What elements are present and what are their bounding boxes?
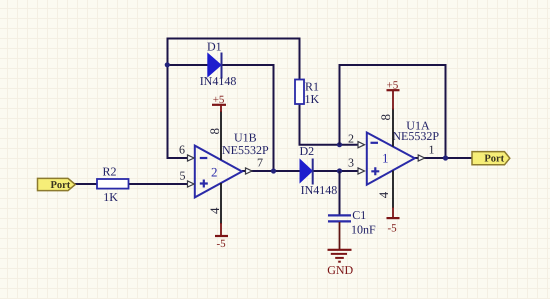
svg-text:1K: 1K <box>103 190 118 204</box>
svg-text:IN4148: IN4148 <box>301 183 338 197</box>
pin 1 arrow U1A output <box>418 155 425 161</box>
svg-text:D2: D2 <box>300 144 315 158</box>
label C1 value 10nF <box>351 222 376 236</box>
pin 5 arrow U1B non-inverting input <box>188 181 195 187</box>
wire left port to R2 <box>73 183 97 185</box>
pin number 3 <box>348 156 354 170</box>
svg-text:C1: C1 <box>352 208 366 222</box>
label U1A designator <box>406 119 430 133</box>
diode D2 <box>300 159 313 185</box>
svg-text:D1: D1 <box>207 40 222 54</box>
pin 3 arrow U1A non-inverting input <box>358 168 365 174</box>
pin number 4 U1A (rotated) <box>376 191 391 198</box>
port P1 (left, Port) <box>38 178 76 190</box>
port P2 (right, Port) <box>472 152 510 165</box>
label R1 designator <box>305 80 319 94</box>
wire junction down to C1 <box>339 171 341 215</box>
svg-text:10nF: 10nF <box>351 222 376 236</box>
label R2 designator <box>103 165 117 179</box>
node junction at U1A pin 2 net <box>337 142 342 147</box>
svg-text:-5: -5 <box>217 238 227 250</box>
op-amp U1A <box>367 133 415 185</box>
svg-text:1: 1 <box>429 143 435 157</box>
svg-text:IN4148: IN4148 <box>200 74 237 88</box>
svg-text:4: 4 <box>207 207 222 214</box>
wire U1A feedback loop left vertical <box>339 64 341 145</box>
power -5 below U1B <box>215 223 228 250</box>
power +5 above U1B <box>212 94 226 112</box>
pin 8 U1A power pin <box>392 109 394 147</box>
svg-text:+5: +5 <box>387 79 399 91</box>
diode D1 <box>208 53 222 79</box>
pin 4 U1B power pin <box>220 183 222 224</box>
svg-text:4: 4 <box>376 191 391 198</box>
svg-text:6: 6 <box>179 143 185 157</box>
pin number 5 <box>180 169 186 183</box>
pin 2 arrow U1A inverting input <box>358 142 365 148</box>
svg-text:1K: 1K <box>305 92 320 106</box>
wire U1B output row to D2 anode <box>242 170 300 172</box>
label C1 designator <box>352 208 366 222</box>
label R1 value 1K <box>305 92 320 106</box>
svg-text:2: 2 <box>348 132 354 146</box>
svg-text:-5: -5 <box>388 223 398 235</box>
node junction at U1A output <box>443 155 448 160</box>
svg-text:+5: +5 <box>213 94 225 106</box>
pin number 4 U1B (rotated) <box>207 207 222 214</box>
pin 6 arrow U1B inverting input <box>188 155 195 161</box>
node junction at D1 anode / pin6 net <box>165 62 170 67</box>
pin number 8 U1B (rotated) <box>207 128 222 135</box>
wire top feedback horizontal (D1 loop top) <box>167 38 300 40</box>
ground GND power symbol <box>328 222 352 262</box>
pin 7 arrow U1B output <box>246 168 253 174</box>
wire D1 anode segment <box>167 64 209 66</box>
label D1 designator <box>207 40 222 54</box>
label R2 value 1K <box>103 190 118 204</box>
wire D2 cathode to U1A pin 3 <box>313 170 359 172</box>
svg-text:8: 8 <box>207 128 222 135</box>
label U1B designator <box>234 131 257 145</box>
wire D1 cathode segment <box>222 64 275 66</box>
svg-text:Port: Port <box>50 180 70 191</box>
svg-text:3: 3 <box>348 156 354 170</box>
svg-text:Port: Port <box>484 154 504 165</box>
wire R1 top leg from feedback <box>299 38 301 80</box>
svg-text:NE5532P: NE5532P <box>392 129 439 143</box>
node junction at U1B output <box>271 168 276 173</box>
wire U1A feedback loop top horizontal <box>339 64 446 66</box>
svg-text:7: 7 <box>257 156 263 170</box>
svg-text:R2: R2 <box>103 165 117 179</box>
op-amp U1B <box>195 146 242 198</box>
svg-text:2: 2 <box>211 165 218 180</box>
capacitor C1 <box>328 215 351 221</box>
label U1A part NE5532P <box>392 129 439 143</box>
wire U1A output to right port <box>415 157 472 159</box>
label GND <box>327 263 353 277</box>
power +5 above U1A <box>387 79 400 109</box>
pin number 8 U1A (rotated) <box>378 114 393 121</box>
label D1 value IN4148 <box>200 74 237 88</box>
wire vertical D1 cathode to U1B output <box>273 64 275 171</box>
pin number 6 <box>179 143 185 157</box>
svg-text:1: 1 <box>382 150 389 165</box>
pin number 2 <box>348 132 354 146</box>
wire U1A feedback loop right vertical <box>445 64 447 158</box>
label D2 value IN4148 <box>301 183 338 197</box>
pin number 7 <box>257 156 263 170</box>
label D2 designator <box>300 144 315 158</box>
svg-text:GND: GND <box>327 263 353 277</box>
power -5 below U1A <box>387 208 400 235</box>
node junction at U1A pin 3 net <box>337 168 342 173</box>
resistor R1 <box>295 80 304 105</box>
wire R1 bottom leg to U1A pin 2 <box>299 104 359 145</box>
wire left vertical to U1B pin 6 <box>167 38 189 159</box>
resistor R2 <box>97 179 129 189</box>
svg-text:5: 5 <box>180 169 186 183</box>
pin 4 U1A power pin <box>392 171 394 209</box>
svg-text:8: 8 <box>378 114 393 121</box>
label U1B part NE5532P <box>222 143 269 157</box>
wire R2 to U1B pin 5 <box>129 183 189 185</box>
pin 8 U1B power pin <box>220 111 222 160</box>
pin number 1 <box>429 143 435 157</box>
